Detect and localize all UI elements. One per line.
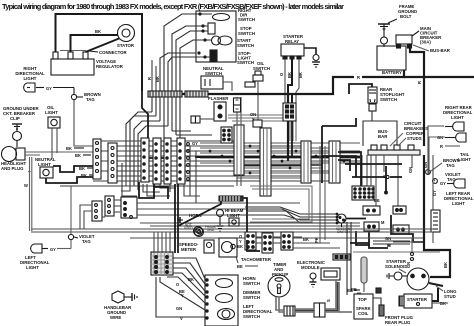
dark pin block left of strip E — [221, 127, 232, 143]
wire labels to left switch — [176, 277, 194, 321]
svg-text:BK: BK — [66, 146, 72, 151]
bus-bar label — [413, 45, 451, 53]
wire relay left terminal down — [284, 59, 286, 103]
brown tag rear — [426, 158, 460, 174]
svg-text:BK: BK — [75, 153, 81, 158]
left small connector block 2 — [105, 196, 114, 216]
wires stator-harness verticals — [152, 60, 156, 91]
small connector box r4 — [393, 225, 409, 234]
wire regulator T3 to stator diagonal — [86, 39, 120, 53]
svg-text:(30A): (30A) — [420, 40, 431, 45]
junction dots on left switch box — [205, 278, 208, 319]
wires from studs strip down — [362, 155, 412, 206]
wire solenoid to starter — [432, 288, 438, 301]
front plug — [379, 305, 414, 325]
wire from brown tag down to harness — [74, 100, 93, 146]
label start switch — [237, 38, 254, 48]
vertical wire labels left of relay — [147, 76, 160, 82]
svg-text:Y: Y — [252, 117, 255, 122]
svg-text:LIGHT: LIGHT — [458, 157, 471, 162]
wires from mid block right — [137, 203, 300, 215]
thick harness feeder — [148, 138, 170, 158]
svg-text:GY: GY — [46, 86, 52, 91]
svg-text:BK: BK — [79, 166, 85, 171]
left frame vertical line (double) — [30, 157, 32, 231]
labels O GN — [374, 167, 413, 203]
thick wires upper bottom-right — [406, 238, 414, 268]
svg-text:BK: BK — [81, 173, 87, 178]
tachometer — [219, 238, 272, 269]
labels BK PK — [303, 237, 319, 243]
condenser — [361, 257, 367, 292]
wires between bm blocks — [256, 237, 340, 248]
thick lattice wires left of studs — [322, 152, 402, 191]
right rear directional light — [443, 105, 473, 131]
module ground — [310, 273, 317, 287]
svg-text:BK: BK — [287, 72, 292, 78]
wire rear stoplight down left branch — [363, 111, 372, 146]
label GY on harness — [192, 141, 198, 146]
gray row y252 — [353, 251, 440, 253]
connector strip B — [108, 143, 117, 183]
svg-text:STARTER: STARTER — [407, 297, 428, 302]
multi-pin connector on thick pair — [283, 103, 296, 121]
crossing zone verticals — [121, 146, 200, 203]
svg-text:AND PLUG: AND PLUG — [1, 166, 24, 171]
svg-text:BK: BK — [95, 29, 101, 34]
left small connector blocks — [92, 201, 102, 221]
right handlebar switch housing — [196, 11, 236, 62]
wires above and below E — [237, 97, 241, 186]
electronic module — [297, 260, 340, 280]
fan wires to ignition — [240, 207, 337, 223]
ground under ckt. breaker clip — [3, 106, 39, 147]
svg-text:COIL: COIL — [358, 311, 369, 316]
svg-text:Y: Y — [181, 293, 184, 298]
svg-text:STUD: STUD — [444, 294, 456, 299]
wires from connector to left switch housing — [156, 258, 205, 317]
svg-text:GN: GN — [408, 167, 413, 173]
svg-text:LIGHT: LIGHT — [452, 201, 465, 206]
wire thick R from breaker down — [410, 48, 424, 229]
svg-text:GY: GY — [440, 181, 446, 186]
connector strip mid E — [234, 125, 244, 175]
inline 2-cell connector above strip E — [234, 98, 241, 112]
hi-beam light — [217, 208, 244, 231]
speedometer — [179, 240, 214, 253]
svg-text:SWITCH: SWITCH — [243, 281, 260, 286]
central vertical bundle below connector — [152, 97, 180, 139]
harness connector strip top right — [185, 91, 208, 97]
svg-text:MODULE: MODULE — [301, 265, 320, 270]
svg-text:STATOR: STATOR — [117, 43, 135, 48]
svg-text:BE: BE — [351, 287, 357, 292]
svg-text:R: R — [147, 77, 152, 80]
svg-text:SWITCH: SWITCH — [238, 17, 255, 22]
svg-text:SWITCH: SWITCH — [253, 66, 270, 71]
starter relay — [281, 34, 304, 59]
horizontal pair to solenoid area — [373, 241, 410, 244]
left rear directional light — [440, 179, 474, 206]
ignition fan junction dots — [336, 213, 339, 225]
gray U bundle — [250, 186, 312, 222]
label right dir switch — [238, 8, 255, 22]
svg-text:SOLENOID: SOLENOID — [385, 264, 407, 269]
BK stub row 2 — [75, 153, 91, 158]
junction dots handlebar wires — [197, 12, 206, 58]
svg-text:SWITCH: SWITCH — [205, 71, 222, 76]
flasher — [208, 96, 229, 121]
wires into right handlebar housing — [160, 14, 212, 91]
main circuit breaker 30A — [396, 26, 442, 48]
label ON — [250, 112, 256, 122]
main harness horizontal bundle rows — [60, 141, 360, 186]
svg-text:PK: PK — [314, 237, 319, 243]
big connector block bottom left — [151, 252, 173, 275]
svg-text:REAR PLUG: REAR PLUG — [385, 320, 411, 325]
svg-text:R: R — [440, 144, 443, 149]
wire rear stoplight down right branch — [372, 121, 397, 146]
svg-text:TAG: TAG — [446, 163, 455, 168]
svg-text:V: V — [180, 316, 183, 321]
svg-text:SWITCH: SWITCH — [243, 295, 260, 300]
svg-text:LIGHT: LIGHT — [38, 162, 51, 167]
svg-text:S: S — [326, 299, 331, 302]
svg-text:BK: BK — [188, 277, 194, 282]
connector strip mid F — [260, 128, 271, 196]
svg-text:SWITCH: SWITCH — [237, 60, 254, 65]
svg-text:SWITCH: SWITCH — [238, 31, 255, 36]
long stud — [429, 283, 457, 299]
pigtail circle — [386, 175, 389, 178]
stud grid block — [352, 186, 374, 200]
svg-text:SWITCH: SWITCH — [380, 97, 397, 102]
svg-text:SWITCH: SWITCH — [337, 230, 350, 234]
wires down into big connector — [154, 232, 170, 253]
svg-text:W: W — [24, 183, 28, 188]
horn — [177, 213, 203, 236]
BK stub row 1 — [66, 146, 84, 151]
thick stepped wire into bundle — [142, 91, 148, 138]
starter motor — [399, 294, 446, 308]
wire relay mid terminal thick down — [288, 59, 292, 103]
svg-text:FLASHER: FLASHER — [208, 96, 229, 101]
labels left switch housing — [243, 276, 273, 319]
neutral switch — [201, 66, 224, 89]
svg-text:REGULATOR: REGULATOR — [96, 64, 124, 69]
wires around left blocks — [80, 200, 126, 229]
svg-text:LIGHT: LIGHT — [227, 213, 240, 218]
wire regulator T1 up-over to harness connector — [56, 14, 143, 91]
connector strip C2 — [164, 138, 171, 184]
BE label coil — [351, 287, 361, 293]
thick elbow wire to ignition area — [322, 118, 356, 183]
ignition light switch — [336, 214, 366, 234]
connector (regulator) — [60, 50, 128, 55]
violet tag rear — [433, 172, 461, 183]
wire thick from neutral light bottom — [46, 177, 93, 183]
svg-text:BK: BK — [155, 76, 160, 82]
svg-text:R: R — [357, 75, 360, 80]
rear stoplight switch — [368, 87, 405, 111]
wire labels under relay — [279, 72, 303, 78]
bottom mid horizontal thick wires — [247, 240, 260, 251]
svg-text:R: R — [417, 81, 422, 84]
connector block bm1 — [245, 232, 256, 250]
harness connector strip top left — [148, 91, 182, 97]
BK stub row 3 — [79, 166, 93, 171]
wire starter BK right — [432, 302, 448, 304]
extra harness rows — [200, 143, 360, 178]
handlebar ground wire — [104, 291, 137, 320]
thick S wire bottom right harness — [391, 215, 425, 242]
wire battery positive to breaker — [398, 46, 400, 48]
svg-text:BK: BK — [443, 262, 448, 268]
svg-text:LIGHT: LIGHT — [24, 76, 37, 81]
headlight and plug — [1, 147, 93, 172]
svg-text:STUDS: STUDS — [407, 136, 422, 141]
svg-text:BATTERY: BATTERY — [382, 70, 402, 75]
svg-text:WIRE: WIRE — [110, 315, 121, 320]
connector strip right G — [301, 141, 311, 183]
svg-text:LIGHT: LIGHT — [45, 110, 58, 115]
svg-text:GY: GY — [192, 141, 198, 146]
thick wire from hatch bar — [178, 198, 247, 240]
left handlebar switch housing — [205, 275, 238, 326]
svg-text:CLIP: CLIP — [10, 116, 20, 121]
label stop-light switch — [237, 51, 254, 65]
spark coil — [354, 294, 373, 319]
wire neutral switch to harness — [223, 82, 232, 91]
oil light — [45, 105, 60, 159]
thick harness trunk line — [195, 156, 360, 158]
thick wires central descent — [139, 182, 178, 253]
starter solenoid — [385, 259, 429, 290]
harness lower horizontal bundle — [31, 223, 433, 242]
connector strip D2 — [177, 138, 185, 184]
svg-text:TAG: TAG — [86, 97, 95, 102]
frame ground small (speedo area) — [205, 225, 216, 232]
svg-text:M: M — [381, 220, 385, 225]
horn mid connector block — [121, 197, 137, 218]
voltage regulator — [51, 52, 124, 75]
svg-text:GN: GN — [176, 306, 182, 311]
small connector box r1 — [363, 206, 380, 215]
connector strip C — [141, 138, 149, 182]
svg-text:BE: BE — [374, 198, 380, 203]
svg-text:BK: BK — [237, 244, 243, 249]
brown tag — [71, 88, 100, 103]
thick pair below connector — [288, 121, 292, 161]
coil to front plug wire — [373, 298, 381, 305]
small connector box r3 — [364, 222, 379, 231]
svg-text:GN: GN — [423, 162, 428, 168]
wire stoplight switch top left — [349, 84, 372, 94]
wire thick from neutral light right side — [53, 166, 93, 172]
horn circle upper — [195, 228, 204, 237]
gray feeder bundle into F — [228, 115, 296, 141]
svg-text:BUS-BAR: BUS-BAR — [430, 48, 451, 53]
stepped wires from bundle to left — [126, 112, 212, 190]
svg-text:GY: GY — [50, 247, 56, 252]
small plug rect — [376, 288, 381, 293]
neutral light — [35, 157, 56, 178]
oil switch wire endpoint box — [253, 120, 262, 127]
svg-text:TOP: TOP — [358, 297, 367, 302]
svg-text:SWITCH: SWITCH — [237, 43, 254, 48]
svg-text:USED: USED — [184, 226, 194, 230]
svg-text:GN: GN — [406, 262, 411, 268]
wire relay right terminal down-jog — [296, 59, 299, 103]
gray verticals near ignition — [320, 146, 325, 243]
hatched connector bar small — [219, 196, 243, 201]
R bus to rear — [404, 76, 474, 78]
ignition vertical pair down to coil — [347, 222, 351, 295]
svg-text:CONNECTOR: CONNECTOR — [99, 50, 128, 55]
svg-text:TACHOMETER: TACHOMETER — [241, 257, 272, 262]
circuit breakers copper studs strip — [368, 121, 428, 155]
svg-text:SWITCH: SWITCH — [243, 314, 260, 319]
pigtail circles right of strip D2 — [187, 143, 190, 181]
right directional light — [15, 66, 45, 92]
timer cable connector 2 — [314, 303, 325, 317]
left directional light — [20, 240, 71, 270]
svg-text:Typical wiring diagram for 198: Typical wiring diagram for 1980 through … — [2, 2, 344, 11]
wire thick battery to R bus then down-left — [148, 70, 404, 160]
BK stub row 4 — [81, 173, 93, 178]
connector strip A (left) — [93, 139, 101, 179]
svg-text:BK: BK — [303, 237, 309, 242]
svg-text:GY: GY — [432, 190, 437, 196]
connector block bm3 — [281, 232, 293, 250]
svg-text:LIGHT: LIGHT — [451, 115, 464, 120]
small connector box r2 — [393, 206, 406, 214]
battery — [377, 46, 406, 75]
timer cable runs — [276, 280, 352, 312]
vertical connector block right — [431, 210, 440, 232]
label BK arrow — [347, 288, 360, 293]
svg-text:TAG: TAG — [82, 239, 91, 244]
svg-text:BK: BK — [298, 72, 303, 78]
wire solenoid thick right — [424, 229, 450, 277]
small box top — [245, 82, 255, 87]
stator — [117, 25, 135, 49]
labels O Y BK — [237, 234, 243, 249]
connector block bm2 — [262, 233, 273, 253]
starter relay ground — [304, 48, 320, 67]
timer and pickup — [268, 262, 290, 297]
svg-text:BOLT: BOLT — [400, 14, 412, 19]
wire GY from right directional — [36, 86, 74, 91]
svg-text:RELAY: RELAY — [285, 39, 299, 44]
thick wire top bottom-right block — [350, 242, 369, 244]
svg-text:METER: METER — [181, 247, 197, 252]
connector strip right H — [329, 141, 340, 183]
svg-text:GND: GND — [207, 228, 215, 232]
labels GN R bottom — [385, 236, 391, 248]
label stop switch — [238, 26, 255, 36]
module top connector strip — [333, 254, 350, 260]
svg-text:LIGHT: LIGHT — [26, 265, 39, 270]
inline 2-pin connector — [191, 116, 214, 123]
nested thick corners below r3 — [356, 231, 388, 248]
violet tag left — [68, 186, 94, 244]
timer cable connector 1 — [284, 306, 295, 316]
tail light — [437, 133, 471, 162]
svg-text:BE: BE — [237, 264, 243, 269]
svg-text:BAR: BAR — [378, 134, 388, 139]
wire regulator T2 to stator — [71, 35, 118, 52]
svg-text:HORN: HORN — [189, 213, 202, 218]
harness junction dots — [209, 145, 346, 175]
oil switch — [253, 61, 270, 120]
frame ground bolt — [378, 4, 417, 47]
connector strip D — [153, 138, 161, 184]
svg-text:R: R — [387, 243, 390, 248]
rear light feed wires — [428, 126, 445, 243]
